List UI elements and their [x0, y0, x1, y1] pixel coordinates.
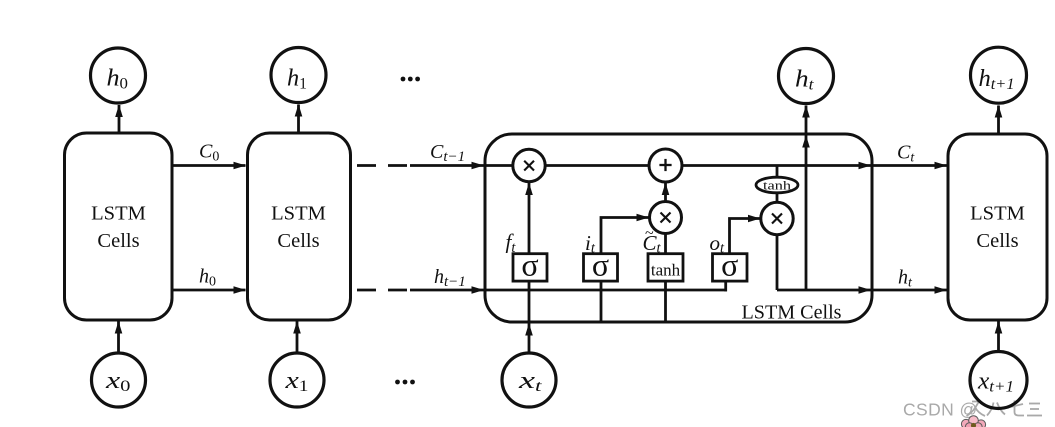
sigma box i — [584, 254, 618, 281]
glyph ba — [987, 403, 1005, 416]
wire ht up inside box — [805, 136, 808, 291]
svg-text:σ: σ — [521, 247, 538, 283]
wire dashed Ct-1 segment 1 — [357, 164, 376, 167]
svg-text:tanh: tanh — [763, 178, 792, 193]
svg-text:C0: C0 — [199, 141, 219, 165]
svg-text:tanh: tanh — [651, 261, 681, 280]
wire sigma-i elbow to X2 — [601, 218, 649, 254]
wire ht-1 into central box — [410, 289, 484, 292]
svg-text:h0: h0 — [199, 266, 216, 290]
wire xt+1 to box4 — [997, 322, 1000, 351]
wire tanh box to X2 — [664, 234, 667, 254]
LSTM cell box 2 — [248, 133, 351, 320]
wire sigma-f down to bottom bus — [528, 281, 531, 322]
wire dashed Ct-1 segment 2 — [388, 164, 407, 167]
wire cell-state line left — [485, 164, 513, 167]
svg-text:ht+1: ht+1 — [979, 66, 1015, 93]
svg-text:ht: ht — [898, 267, 913, 291]
wire ht box top to circle — [805, 106, 808, 135]
wire box4 to ht+1 — [997, 106, 1000, 135]
node ht circle — [779, 49, 834, 104]
svg-text:Cells: Cells — [277, 230, 319, 252]
wire xt to central box — [528, 324, 531, 353]
node x1 circle — [270, 353, 324, 407]
wire cell-state line right to edge — [682, 164, 871, 167]
wire h0 box1 to box2 — [172, 289, 246, 292]
flower sticker — [961, 416, 985, 427]
svg-text:LSTM: LSTM — [271, 203, 326, 225]
svg-text:σ: σ — [592, 247, 609, 283]
wire hidden line left — [485, 289, 727, 292]
svg-text:CSDN @: CSDN @ — [903, 400, 978, 420]
LSTM cell box 1 — [65, 133, 173, 320]
svg-text:h1: h1 — [287, 66, 307, 93]
wire tanh box down to bottom bus — [664, 281, 667, 322]
node xt+1 circle — [970, 352, 1027, 409]
wire x0 to box1 — [117, 322, 120, 353]
glyph san — [1027, 404, 1042, 416]
node h1 circle — [271, 48, 326, 103]
central LSTM cell box — [485, 134, 872, 322]
wire X2 to add gate — [664, 183, 667, 202]
svg-text:LSTM: LSTM — [91, 203, 146, 225]
svg-text:LSTM Cells: LSTM Cells — [742, 302, 842, 324]
wire box1 to h0 — [118, 105, 121, 133]
wire sigma-i down to bottom bus — [600, 281, 603, 322]
wire dashed ht-1 segment 1 — [357, 289, 376, 292]
dots top ellipsis — [401, 77, 420, 82]
multiply gate X3 — [761, 202, 793, 234]
wire Ct central box to box4 — [872, 164, 947, 167]
svg-text:ft: ft — [506, 230, 517, 257]
wire tanh ellipse to X3 — [776, 193, 779, 203]
svg-text:xt+1: xt+1 — [977, 369, 1014, 396]
wire x1 to box2 — [296, 322, 299, 353]
svg-text:Cells: Cells — [97, 230, 139, 252]
node h0 circle — [91, 48, 146, 103]
svg-text:Ct: Ct — [897, 142, 915, 166]
wire C0 box1 to box2 — [172, 164, 246, 167]
svg-text:Ct−1: Ct−1 — [430, 141, 465, 165]
LSTM cell box 4 — [948, 134, 1047, 320]
svg-text:x0: x0 — [105, 368, 131, 395]
wire X3 down to h line — [776, 235, 779, 291]
wire cell-state to tanh ellipse — [776, 166, 779, 178]
wire Ct-1 into central box — [410, 164, 484, 167]
wire stub h line to sigma-o — [724, 281, 727, 291]
add gate — [649, 149, 682, 182]
svg-text:xt: xt — [517, 368, 542, 395]
wire sigma-f to X1 — [528, 183, 531, 254]
wire sigma-o elbow to X3 — [730, 219, 760, 254]
svg-text:h0: h0 — [107, 66, 129, 93]
dots bottom ellipsis — [395, 380, 415, 385]
svg-text:ht−1: ht−1 — [434, 266, 466, 290]
wire hidden line right to edge — [777, 289, 871, 292]
glyph qi — [1008, 401, 1024, 416]
svg-text:Cells: Cells — [976, 230, 1018, 252]
wire dashed ht-1 segment 2 — [388, 289, 407, 292]
watermark CSDN — [903, 400, 1042, 420]
multiply gate X1 — [513, 149, 545, 181]
multiply gate X2 — [650, 202, 682, 234]
svg-text:σ: σ — [721, 247, 738, 283]
svg-text:x1: x1 — [284, 368, 308, 395]
wire box2 to h1 — [297, 105, 300, 134]
wire ht central box to box4 — [872, 289, 947, 292]
svg-text:~: ~ — [645, 225, 654, 242]
tanh ellipse — [756, 177, 798, 193]
tanh box — [648, 254, 683, 281]
node ht+1 circle — [971, 47, 1027, 103]
svg-text:ht: ht — [795, 67, 814, 94]
svg-text:LSTM: LSTM — [970, 203, 1025, 225]
node x0 circle — [92, 353, 146, 407]
sigma box f — [513, 254, 547, 281]
wire cell-state line middle — [545, 164, 650, 167]
glyph jiu — [967, 402, 986, 417]
node xt circle — [502, 353, 556, 407]
sigma box o — [713, 254, 748, 281]
